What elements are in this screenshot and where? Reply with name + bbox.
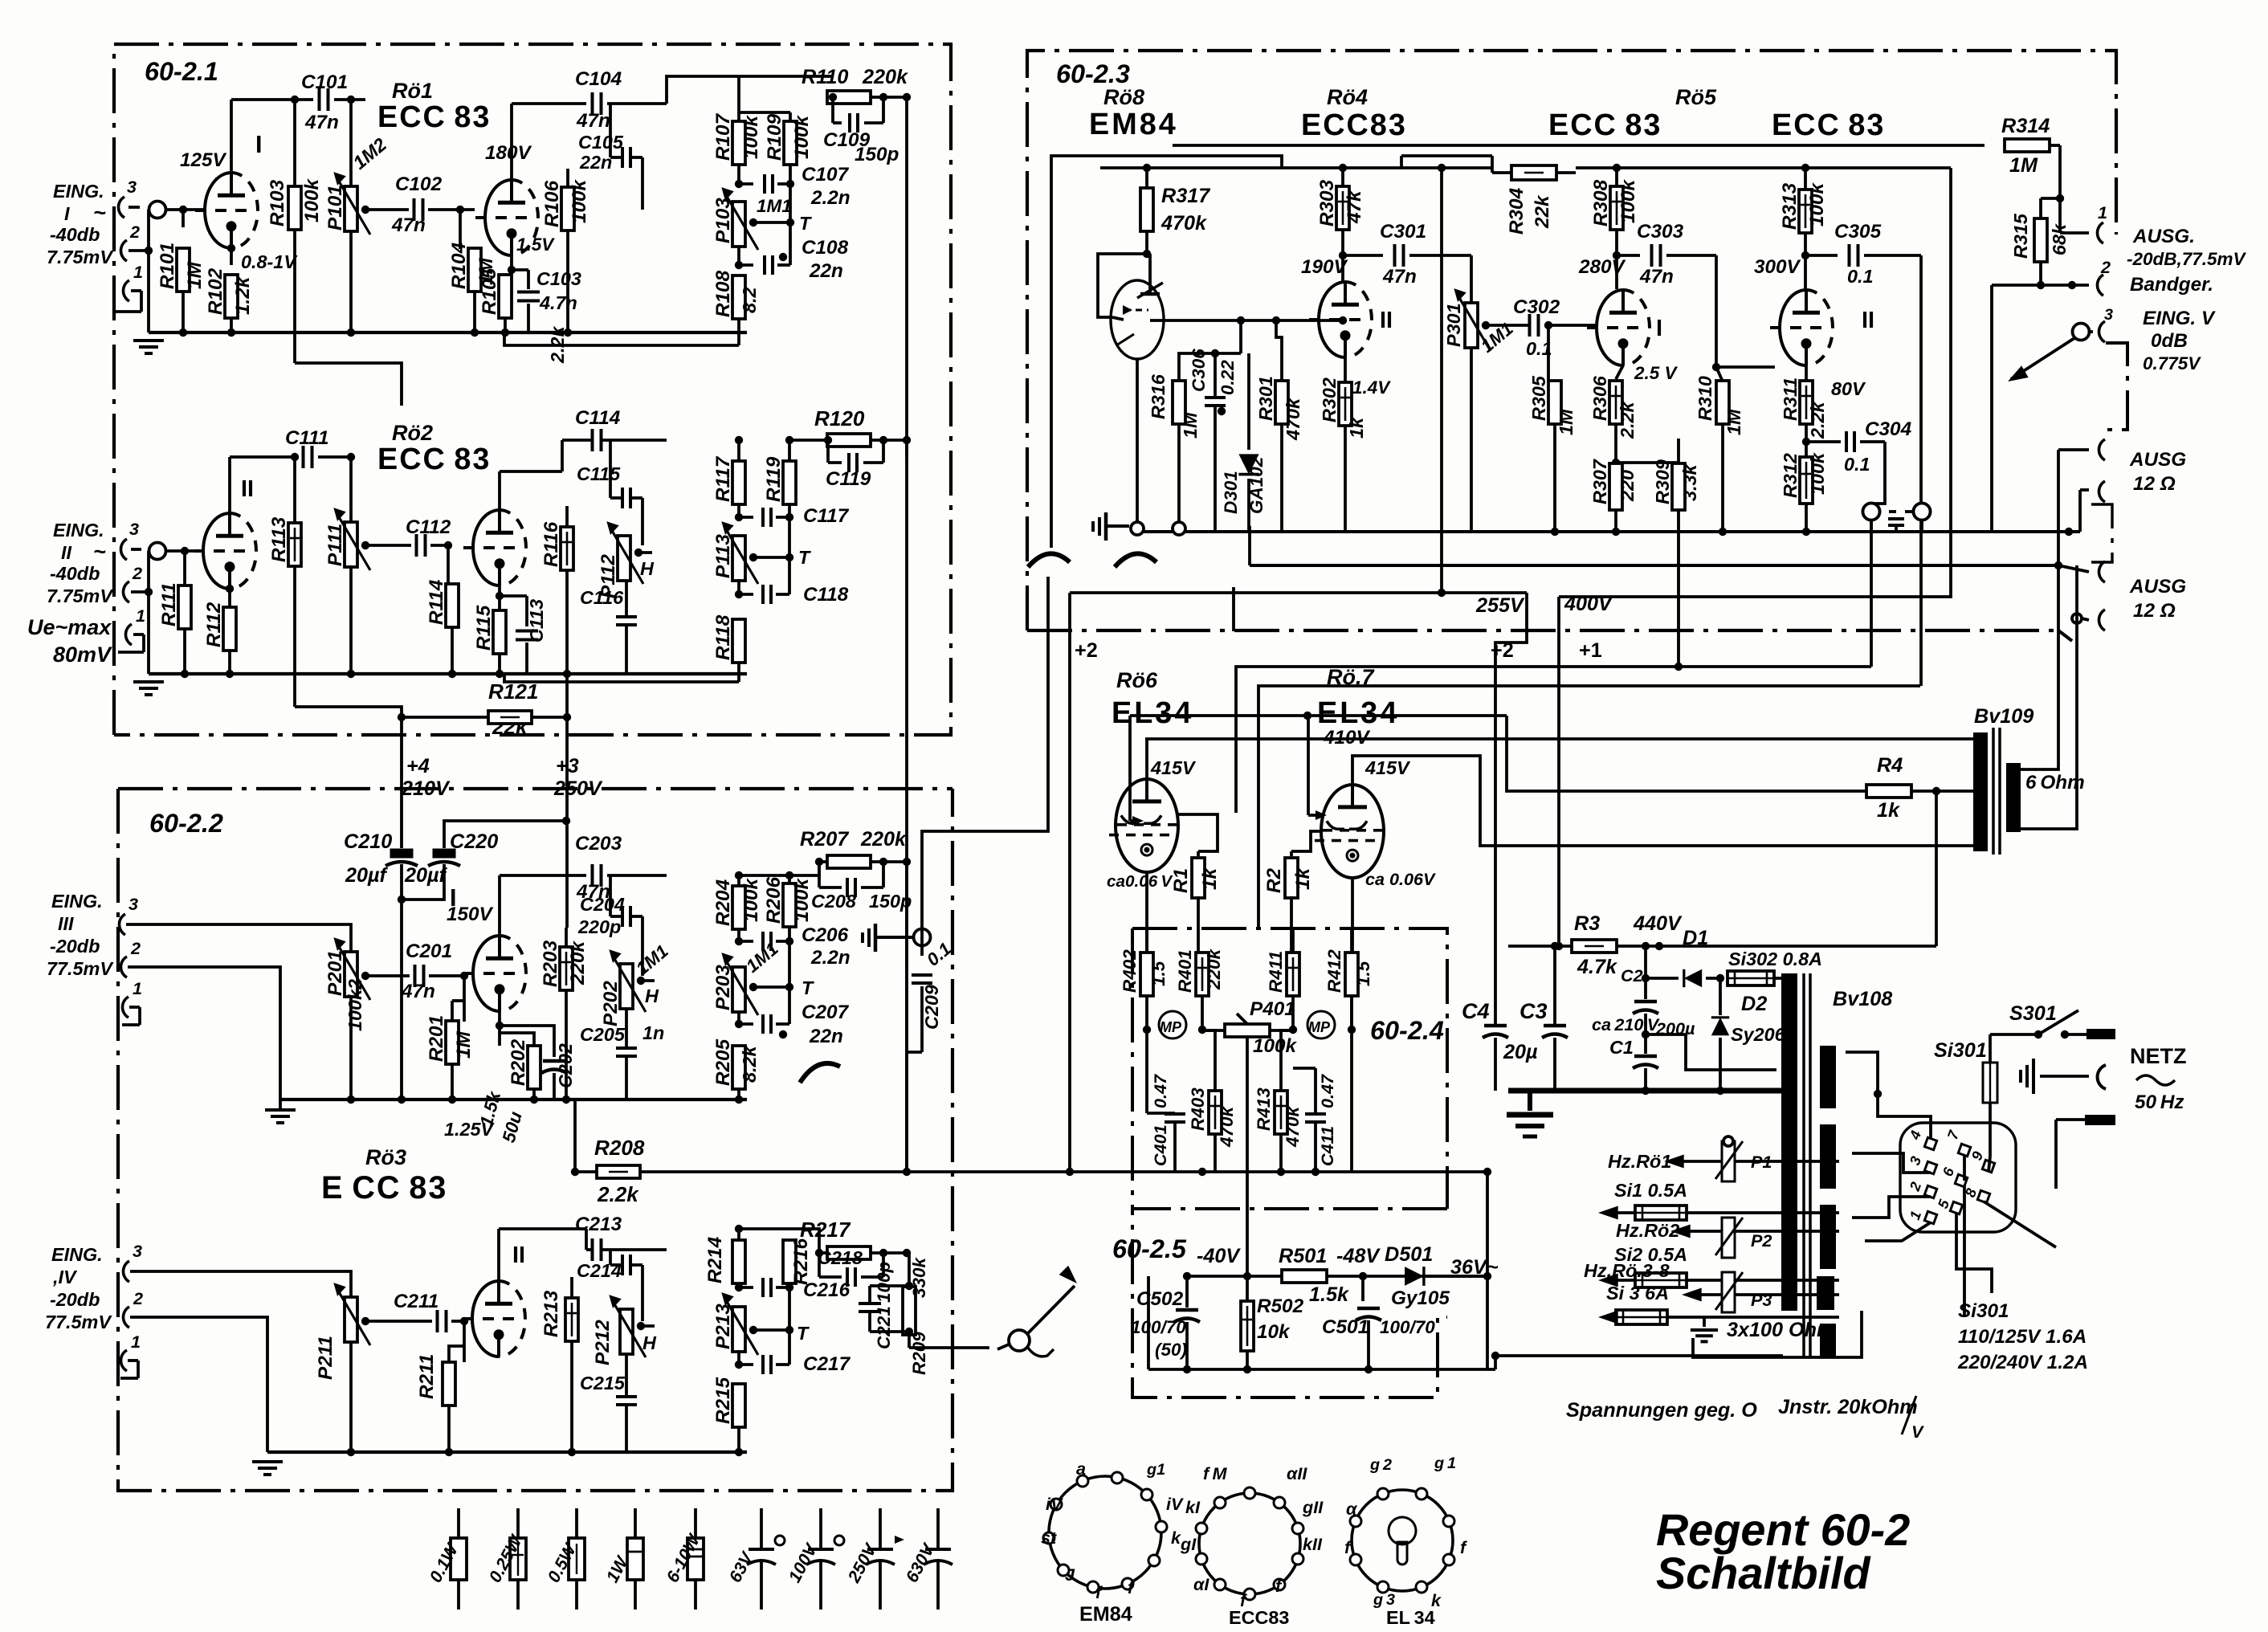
resistor R305 1M: [1547, 325, 1550, 381]
svg-text:47n: 47n: [1639, 266, 1674, 288]
svg-text:C114: C114: [575, 407, 621, 429]
svg-text:100/70: 100/70: [1380, 1317, 1435, 1337]
wire 60-2.5 bottom: [1148, 1368, 1487, 1371]
svg-text:R117: R117: [712, 455, 734, 502]
wire 60-2.4 bottom rail: [1132, 1170, 1487, 1173]
svg-text:R4: R4: [1877, 754, 1903, 777]
capacitor C401 0.47: [1145, 1030, 1148, 1113]
svg-text:EING.: EING.: [51, 891, 103, 912]
resistor R114: [447, 545, 450, 585]
wire C220 bottom join: [402, 864, 444, 900]
svg-text:R304: R304: [1506, 187, 1528, 235]
resistor R102 1.2k: [230, 248, 233, 265]
svg-text:R307: R307: [1589, 459, 1610, 504]
svg-text:C217: C217: [803, 1353, 851, 1375]
svg-text:2.2k: 2.2k: [1807, 401, 1828, 439]
svg-text:2.2n: 2.2n: [810, 187, 850, 209]
resistor R315 68k: [2041, 197, 2060, 200]
svg-text:αII: αII: [1287, 1463, 1307, 1483]
svg-text:~: ~: [93, 201, 106, 225]
svg-text:1n: 1n: [642, 1022, 664, 1043]
wire C303 to Roe5-II grid: [1715, 255, 1718, 367]
legend resistor 0.25W: [516, 1508, 520, 1538]
jack EING.II pin 3: [120, 539, 127, 560]
svg-text:C208: C208: [811, 891, 856, 912]
svg-text:R201: R201: [426, 1015, 447, 1062]
resistor R216: [788, 1241, 791, 1250]
arc shield right: [1115, 553, 1156, 567]
svg-text:-20db: -20db: [50, 1289, 100, 1310]
tube U Roe8 EM84: [1111, 280, 1164, 359]
arc shield left: [1028, 553, 1070, 567]
svg-text:100k: 100k: [1253, 1035, 1298, 1057]
svg-text:220: 220: [1617, 470, 1638, 502]
svg-text:P101: P101: [324, 185, 346, 231]
potentiometer P213 T: [732, 1307, 745, 1352]
svg-text:1: 1: [133, 978, 142, 998]
wire 36V vertical: [1486, 1172, 1489, 1276]
inner box 60-2.3: [1051, 156, 1282, 548]
svg-text:2.2k: 2.2k: [597, 1182, 639, 1206]
svg-text:2: 2: [129, 222, 140, 242]
svg-text:C118: C118: [803, 584, 849, 606]
svg-text:MP: MP: [1160, 1019, 1182, 1035]
svg-text:Schaltbild: Schaltbild: [1656, 1548, 1872, 1598]
resistor R214: [737, 1229, 740, 1241]
wiper P111: [365, 544, 411, 547]
wire anode Roe1-I: [230, 100, 233, 173]
svg-text:C221: C221: [874, 1306, 894, 1349]
resistor R204 100k: [737, 875, 740, 886]
wire Roe7 anode to Bv109 bottom: [1352, 756, 1973, 846]
wiper P213 T: [753, 1328, 789, 1332]
svg-text:Rö1: Rö1: [392, 79, 433, 103]
svg-text:Rö2: Rö2: [392, 421, 433, 445]
wiper P212: [641, 1324, 655, 1328]
B+ rail 60-2.3: [1100, 166, 1492, 169]
jack EING.IV pin 2: [123, 1307, 129, 1328]
svg-text:kI: kI: [1185, 1497, 1201, 1517]
svg-text:R2: R2: [1263, 867, 1285, 893]
svg-text:10k: 10k: [1257, 1321, 1291, 1343]
svg-text:Ue~max: Ue~max: [27, 615, 112, 639]
jack output 2: [2041, 284, 2089, 287]
svg-text:Rö8: Rö8: [1103, 85, 1144, 109]
capacitor C211: [436, 1310, 439, 1332]
wire x1682 Roe7 430: [1349, 585, 1352, 589]
box 60-2.2 border: [118, 787, 952, 790]
node grid Roe3-I: [460, 972, 468, 980]
jack NETZ: [2098, 1065, 2106, 1089]
resistor R111: [183, 551, 186, 586]
capacitor C302 0.1: [1528, 314, 1532, 337]
svg-text:C203: C203: [575, 833, 622, 855]
resistor R201 1M: [463, 976, 466, 1022]
tube U Roe2-II triode: [473, 510, 500, 585]
capacitor C201 47n: [414, 965, 417, 987]
svg-text:R502: R502: [1257, 1295, 1304, 1317]
selector pin 9: [1982, 1160, 1994, 1172]
svg-text:Si1 0.5A: Si1 0.5A: [1614, 1180, 1687, 1201]
diode D1: [1642, 974, 1650, 982]
resistor R1 1k: [1197, 851, 1200, 856]
svg-text:12 Ω: 12 Ω: [2133, 600, 2176, 622]
svg-text:Si 3 6A: Si 3 6A: [1606, 1283, 1669, 1304]
Bv109 primary bar: [1973, 732, 1988, 851]
svg-text:T: T: [797, 1323, 810, 1344]
svg-text:220k: 220k: [860, 828, 908, 851]
svg-text:C113: C113: [526, 599, 547, 643]
resistor R412 1.5: [1345, 953, 1358, 996]
wire grid Roe1-I: [166, 208, 205, 211]
svg-text:II: II: [1380, 308, 1393, 333]
wire anode Roe2-I: [228, 457, 231, 513]
svg-text:~: ~: [93, 540, 106, 564]
jack EING.I pin 1: [123, 280, 129, 301]
svg-text:220k: 220k: [1204, 948, 1224, 990]
resistor R311 2.2k: [1805, 365, 1808, 381]
svg-text:22k: 22k: [1532, 194, 1553, 229]
wire 410V screen bus: [1130, 714, 1507, 717]
svg-text:-20db: -20db: [50, 936, 100, 957]
capacitor C111: [302, 446, 305, 468]
svg-text:D1: D1: [1683, 927, 1708, 949]
svg-text:C105: C105: [578, 132, 624, 153]
svg-text:1M: 1M: [184, 261, 206, 289]
svg-text:1.5: 1.5: [1353, 961, 1373, 986]
capacitor C213: [591, 1238, 594, 1261]
wire output stage A down: [905, 97, 908, 1172]
resistor R112: [228, 589, 231, 608]
svg-text:C206: C206: [802, 924, 849, 946]
wire 440V to R4 riser: [1659, 945, 1936, 948]
svg-text:1M: 1M: [1556, 409, 1577, 435]
legend capacitor 63V: [760, 1508, 763, 1549]
svg-text:D301: D301: [1221, 471, 1241, 514]
resistor R316 1M: [1239, 320, 1242, 353]
wire R412 bottom: [1350, 996, 1353, 1030]
node R107 R109 bottom: [737, 165, 740, 184]
socket EM84: [1049, 1476, 1161, 1589]
ground rail stage B: [149, 672, 747, 675]
svg-text:R216: R216: [790, 1238, 812, 1285]
arc shield stage C: [800, 1063, 840, 1083]
svg-text:2.2n: 2.2n: [810, 947, 850, 969]
resistor R103 100k: [293, 100, 296, 186]
svg-text:C209: C209: [921, 985, 942, 1030]
svg-text:P213: P213: [712, 1304, 734, 1349]
svg-text:Hz.Rö2: Hz.Rö2: [1616, 1220, 1679, 1241]
svg-text:E CC 83: E CC 83: [321, 1170, 447, 1206]
svg-text:EING.: EING.: [53, 520, 104, 541]
voltage selector plug: [1900, 1123, 2016, 1232]
capacitor C207 22n: [737, 1011, 740, 1024]
open circle input I: [149, 202, 166, 218]
svg-text:R121: R121: [488, 679, 538, 704]
svg-text:1: 1: [2098, 202, 2107, 222]
bold ground bus: [1508, 1088, 1781, 1094]
svg-text:P301: P301: [1443, 303, 1464, 347]
svg-text:C117: C117: [803, 505, 850, 527]
ground 60-2.2 input II: [147, 680, 150, 683]
wiper P103 T: [753, 221, 790, 224]
wire shield drop to C209: [922, 577, 1048, 956]
svg-text:100k: 100k: [569, 178, 590, 223]
potentiometer P212 H: [620, 1309, 633, 1354]
resistor R303 47k: [1341, 168, 1344, 187]
heater wire Hz.Roe1: [1675, 1160, 1839, 1163]
ground rail stage D: [267, 1450, 747, 1454]
svg-text:P2: P2: [1751, 1230, 1772, 1251]
capacitor C217: [737, 1350, 740, 1365]
svg-text:100p: 100p: [874, 1261, 894, 1303]
box 60-2.4 border: [1132, 928, 1447, 1209]
capacitor C305 0.1: [1805, 254, 1838, 257]
svg-text:J: J: [1065, 1565, 1075, 1585]
svg-text:100k: 100k: [791, 114, 813, 159]
svg-text:R215: R215: [712, 1377, 734, 1424]
svg-text:R208: R208: [594, 1136, 645, 1160]
svg-text:C218: C218: [818, 1247, 863, 1268]
svg-text:EING. V: EING. V: [2143, 308, 2216, 329]
resistor R116: [565, 506, 569, 528]
resistor R307 220: [1609, 463, 1622, 510]
svg-text:C1: C1: [1609, 1037, 1634, 1058]
svg-text:Sy206: Sy206: [1731, 1024, 1786, 1045]
node C111 R113: [291, 453, 299, 461]
svg-text:R308: R308: [1590, 179, 1612, 226]
svg-text:C101: C101: [301, 71, 348, 93]
svg-text:V: V: [1911, 1422, 1924, 1442]
ground stage C: [279, 1100, 282, 1108]
svg-text:125V: 125V: [180, 149, 227, 171]
jack circle left redraw: [1863, 504, 1880, 520]
wire +4 210V: [400, 717, 403, 848]
wire B+ 440V: [1508, 945, 1572, 948]
node anode R103: [291, 96, 299, 104]
svg-text:R109: R109: [764, 113, 785, 161]
svg-text:-40V: -40V: [1197, 1245, 1241, 1267]
svg-text:80mV: 80mV: [53, 643, 112, 667]
svg-text:22n: 22n: [809, 1026, 843, 1047]
svg-text:kII: kII: [1303, 1534, 1323, 1554]
svg-text:R303: R303: [1316, 179, 1338, 226]
svg-text:100k: 100k: [1617, 178, 1639, 223]
wire +2 long: [598, 1170, 907, 1173]
svg-text:12 Ω: 12 Ω: [2133, 473, 2176, 495]
diode D501 Gy105: [1405, 1267, 1424, 1286]
svg-text:g 1: g 1: [1434, 1455, 1456, 1472]
svg-text:R118: R118: [712, 614, 734, 660]
svg-text:3: 3: [2104, 306, 2113, 324]
svg-text:4.7n: 4.7n: [539, 292, 577, 313]
volume pointer arrow: [1009, 1330, 1030, 1351]
svg-text:1M1: 1M1: [757, 196, 792, 216]
svg-text:II: II: [61, 542, 71, 563]
svg-text:R501: R501: [1279, 1245, 1327, 1267]
svg-text:47n: 47n: [391, 214, 426, 236]
ground stage D: [266, 1460, 269, 1463]
svg-text:Gy105: Gy105: [1391, 1287, 1450, 1309]
svg-text:3: 3: [127, 177, 137, 197]
capacitor C103 4.7n: [512, 268, 528, 271]
svg-text:III: III: [58, 913, 74, 934]
svg-text:EL34: EL34: [1317, 696, 1399, 730]
svg-text:C401: C401: [1150, 1124, 1170, 1166]
svg-text:ca 210 V: ca 210 V: [1592, 1014, 1660, 1034]
jack EING.I pin 3: [118, 197, 124, 218]
AUSG 12 ohm top jacks: [2057, 450, 2060, 565]
potentiometer P111: [349, 457, 353, 524]
svg-text:R207: R207: [800, 828, 849, 851]
capacitor C209 0.1: [912, 973, 932, 977]
wire EL34 anode top Bv109: [1145, 737, 1973, 741]
svg-text:+4: +4: [406, 755, 430, 777]
wire riser x830: [667, 76, 833, 104]
svg-text:R103: R103: [267, 179, 288, 226]
resistor R105 2.2k cathode: [510, 255, 513, 270]
wire screen Roe7: [1307, 716, 1310, 815]
bracket output: [2091, 504, 2112, 562]
selector pin 8: [1977, 1190, 1989, 1202]
svg-text:C501: C501: [1322, 1316, 1369, 1338]
capacitor C102 47n: [413, 198, 416, 221]
capacitor C218: [818, 1253, 821, 1277]
svg-text:1k: 1k: [1292, 867, 1314, 890]
svg-text:C214: C214: [577, 1260, 622, 1281]
svg-text:D2: D2: [1741, 993, 1767, 1015]
resistor R308 100k: [1615, 168, 1618, 187]
svg-text:R403: R403: [1188, 1087, 1208, 1131]
svg-text:Bandger.: Bandger.: [2130, 274, 2213, 296]
svg-text:0dB: 0dB: [2151, 330, 2188, 352]
jack AUSG Bandger 1: [2058, 198, 2062, 233]
svg-text:R301: R301: [1255, 376, 1276, 421]
socket ECC83: [1199, 1493, 1300, 1594]
svg-text:+3: +3: [556, 755, 579, 777]
svg-text:g 3: g 3: [1373, 1591, 1395, 1609]
svg-text:+1: +1: [1579, 639, 1602, 662]
svg-text:2: 2: [133, 1288, 143, 1308]
svg-text:NETZ: NETZ: [2130, 1044, 2187, 1068]
svg-text:H: H: [642, 1332, 657, 1353]
wiper P113 T: [753, 556, 789, 559]
svg-text:R108: R108: [712, 270, 734, 317]
svg-text:1k: 1k: [1199, 867, 1221, 890]
resistor R403 470k: [1214, 1068, 1217, 1091]
svg-text:3: 3: [133, 1241, 142, 1261]
wiper P202: [641, 979, 655, 982]
jack EING.I pin 2: [120, 240, 127, 261]
svg-text:R314: R314: [2001, 115, 2050, 137]
svg-text:st: st: [1041, 1528, 1057, 1548]
selector pin 2: [1924, 1185, 1936, 1197]
svg-text:1: 1: [133, 262, 143, 282]
resistor R119: [788, 440, 791, 462]
svg-text:R104: R104: [448, 242, 470, 289]
svg-text:Si302 0.8A: Si302 0.8A: [1728, 949, 1822, 969]
resistor R215: [732, 1384, 745, 1427]
ground C209 sideways: [874, 924, 878, 952]
svg-text:0.47: 0.47: [1317, 1074, 1337, 1108]
node grid Roe1-II: [456, 206, 464, 214]
wiper P211: [365, 1320, 432, 1323]
svg-text:f M: f M: [1203, 1463, 1228, 1483]
svg-text:47n: 47n: [576, 110, 610, 132]
svg-text:1.25V: 1.25V: [444, 1119, 496, 1140]
svg-text:II: II: [512, 1242, 525, 1268]
wire EL34 cathodes: [1145, 872, 1148, 953]
svg-text:7.75mV: 7.75mV: [47, 247, 114, 267]
ground rail stage A: [149, 331, 747, 334]
wire P401 wiper down: [1246, 1041, 1249, 1276]
box 60-2.5 border: [1132, 1209, 1447, 1397]
svg-text:gII: gII: [1302, 1497, 1324, 1517]
wire +3 250V: [565, 717, 569, 928]
svg-text:C204: C204: [580, 894, 625, 915]
svg-text:100k: 100k: [740, 114, 762, 159]
resistor R109 100k: [739, 111, 790, 114]
svg-text:R3: R3: [1574, 912, 1600, 935]
svg-text:20µf: 20µf: [345, 864, 389, 887]
svg-text:P401: P401: [1250, 998, 1295, 1020]
svg-text:Si301: Si301: [1958, 1300, 2009, 1322]
svg-text:150V: 150V: [447, 904, 494, 925]
wire 255V riser: [1495, 593, 1527, 1025]
wire -40V node: [1187, 1275, 1487, 1278]
svg-text:C220: C220: [450, 830, 498, 853]
svg-text:ECC 83: ECC 83: [377, 100, 491, 134]
svg-text:R402: R402: [1120, 949, 1140, 993]
wire R4 junction to 440V: [1935, 791, 1938, 946]
svg-text:T: T: [802, 977, 814, 998]
svg-text:47n: 47n: [304, 112, 339, 133]
selector wires: [1846, 1052, 1931, 1139]
resistor R213: [570, 1277, 573, 1298]
wire +2 riser x1332: [1068, 593, 1071, 1172]
svg-text:440V: 440V: [1633, 912, 1683, 935]
svg-text:190V: 190V: [1301, 256, 1348, 278]
svg-text:R119: R119: [763, 456, 785, 502]
svg-text:H: H: [640, 558, 655, 579]
legend resistor 0.5W: [575, 1508, 578, 1538]
jack EING.II pin 1: [125, 624, 132, 645]
svg-text:Si301: Si301: [1934, 1039, 1987, 1062]
svg-text:T: T: [798, 547, 811, 568]
jack circle right redraw: [1914, 504, 1931, 520]
svg-text:47k: 47k: [1344, 190, 1365, 224]
svg-text:3: 3: [128, 894, 138, 914]
jack EING.III pin 2: [120, 957, 127, 977]
resistor R314 1M: [2005, 139, 2050, 152]
wire EING.IV pin3 to P211: [130, 1271, 351, 1298]
capacitor C411 0.47: [1314, 1068, 1317, 1113]
svg-text:210V: 210V: [401, 777, 451, 800]
svg-text:C104: C104: [575, 68, 622, 90]
resistor R211: [463, 1321, 466, 1362]
wire jack1 bus: [128, 206, 140, 209]
ground rail 60-2.3: [1132, 530, 2080, 533]
box 60-2.3 border: [1027, 51, 2116, 630]
svg-text:C112: C112: [406, 516, 451, 538]
svg-text:R312: R312: [1780, 453, 1801, 498]
svg-text:220k: 220k: [567, 940, 589, 985]
power transformer Bv108 primary bar: [1781, 973, 1797, 1311]
svg-text:P112: P112: [598, 554, 619, 598]
svg-text:20µ: 20µ: [1503, 1041, 1538, 1063]
jack EING.IV pin 1: [120, 1350, 127, 1371]
svg-text:C301: C301: [1380, 221, 1426, 243]
